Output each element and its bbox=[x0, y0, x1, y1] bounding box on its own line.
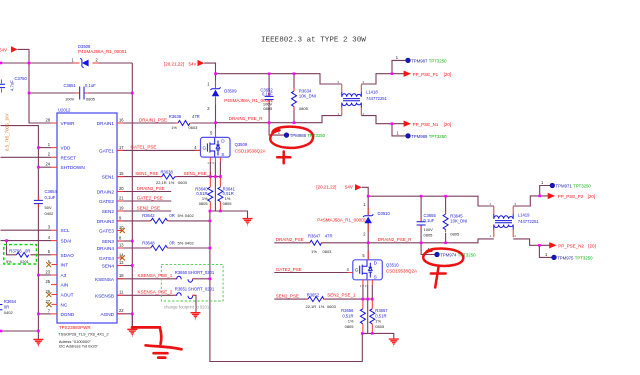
wire A3 to pin 23 bbox=[38, 274, 51, 276]
wire R3651 to ground bbox=[193, 295, 196, 312]
annotation red circle around TPM974 bbox=[423, 248, 463, 265]
svg-text:KSENSA_PSE_2: KSENSA_PSE_2 bbox=[138, 290, 173, 295]
wire C3655 vertical bbox=[420, 196, 422, 243]
resistor R3641 0.51R bbox=[218, 178, 236, 211]
svg-text:[20,21,22]: [20,21,22] bbox=[316, 185, 336, 190]
annotation red plus below TPM974 bbox=[431, 267, 446, 288]
transformer L1419 744772251 bbox=[490, 202, 540, 238]
svg-text:21: 21 bbox=[119, 195, 124, 200]
wire GND rail x=132.3 bbox=[131, 63, 133, 329]
IC right pin numbers bbox=[119, 117, 124, 313]
svg-text:54V: 54V bbox=[189, 61, 197, 66]
wire C3652 vertical bbox=[268, 74, 270, 123]
svg-text:P4SMAJ58A_R1_00001: P4SMAJ58A_R1_00001 bbox=[317, 218, 366, 223]
svg-text:GATE3: GATE3 bbox=[99, 229, 114, 234]
svg-text:0805: 0805 bbox=[424, 233, 434, 238]
svg-text:R3651: R3651 bbox=[175, 286, 188, 291]
svg-text:DRAIN4: DRAIN4 bbox=[97, 246, 115, 251]
wire R3642 to KSENSA rail bbox=[168, 220, 210, 222]
resistor R3652 22.1R bbox=[306, 292, 337, 309]
svg-text:TPT3250: TPT3250 bbox=[429, 58, 447, 63]
wire DRAIN2_PSE stub at pin 20 bbox=[117, 191, 171, 193]
svg-text:CSD19538Q2A: CSD19538Q2A bbox=[235, 148, 266, 153]
svg-text:VDD: VDD bbox=[61, 146, 72, 151]
svg-text:GATE2_PSE: GATE2_PSE bbox=[276, 267, 302, 272]
svg-text:5%: 5% bbox=[178, 213, 184, 218]
svg-text:D: D bbox=[221, 138, 225, 143]
svg-text:0805: 0805 bbox=[345, 324, 355, 329]
wire DRAIN4 pin13 to R3648 bbox=[117, 247, 151, 249]
resistor R3657 0.51R bbox=[370, 300, 389, 333]
svg-text:744772251: 744772251 bbox=[518, 219, 540, 224]
svg-text:12: 12 bbox=[119, 260, 124, 265]
svg-text:R3648: R3648 bbox=[142, 240, 155, 245]
svg-text:25: 25 bbox=[45, 279, 50, 284]
svg-text:R3642: R3642 bbox=[142, 213, 155, 218]
resistor R3656 0.51R bbox=[341, 300, 365, 333]
svg-text:C3750: C3750 bbox=[15, 76, 28, 81]
no-connect X pin 26 AOUT bbox=[46, 292, 51, 297]
svg-text:0402: 0402 bbox=[185, 240, 195, 245]
svg-text:TPS23880PWR: TPS23880PWR bbox=[59, 325, 92, 330]
capacitor C3652 bbox=[260, 87, 273, 111]
svg-text:S: S bbox=[374, 275, 377, 280]
svg-text:D3508: D3508 bbox=[78, 44, 91, 49]
svg-text:CSD19538Q2A: CSD19538Q2A bbox=[386, 269, 417, 274]
svg-text:G: G bbox=[203, 145, 207, 150]
capacitor C3651 bbox=[64, 83, 97, 102]
svg-text:S: S bbox=[221, 152, 224, 157]
test point TPM971 bbox=[541, 180, 591, 188]
svg-text:22,1R: 22,1R bbox=[156, 180, 167, 185]
IC left pin names bbox=[61, 121, 85, 317]
test point TPM987 bbox=[396, 55, 447, 63]
svg-text:5%: 5% bbox=[6, 259, 12, 264]
wire R3648 to KSENSA rail bbox=[168, 247, 210, 249]
wire DRAIN3 pin9 to R3642 bbox=[117, 220, 151, 222]
wire TPM989 drop bbox=[392, 124, 406, 136]
resistor R3645 10K_DNI bbox=[443, 211, 467, 237]
svg-text:SDAI: SDAI bbox=[61, 239, 72, 244]
wire SHTDOWN to pin 24 bbox=[38, 166, 51, 168]
wire transformer2 BR to PP_PSE_N2 bbox=[513, 239, 549, 245]
resistor R3640 0.51R bbox=[195, 178, 213, 211]
wire channel2 top branch to transformer2 TL bbox=[368, 196, 494, 206]
svg-text:AOUT: AOUT bbox=[61, 293, 74, 298]
svg-text:[20]: [20] bbox=[588, 243, 596, 248]
IC left pin stubs bbox=[51, 123, 57, 314]
resistor R3654 (cut at sheet edge) bbox=[0, 299, 17, 315]
svg-text:R3636: R3636 bbox=[169, 114, 182, 119]
svg-text:R3638: R3638 bbox=[161, 170, 174, 175]
svg-text:TSSOP28_TL9_7X8_4X1_2: TSSOP28_TL9_7X8_4X1_2 bbox=[58, 332, 109, 337]
svg-text:SHTDOWN: SHTDOWN bbox=[61, 165, 85, 170]
svg-text:GATE1: GATE1 bbox=[99, 148, 114, 153]
svg-text:KSENSA: KSENSA bbox=[95, 277, 115, 282]
svg-text:TPT3250: TPT3250 bbox=[307, 133, 325, 138]
svg-text:15: 15 bbox=[119, 171, 124, 176]
svg-text:0,1uF: 0,1uF bbox=[85, 83, 96, 88]
test point TPM989 bbox=[397, 131, 448, 139]
svg-text:5%: 5% bbox=[178, 240, 184, 245]
wire channel2 drain rail with D3510 bbox=[362, 187, 369, 259]
svg-text:0R: 0R bbox=[169, 213, 174, 218]
wire channel2 source bottom tie row to ground bbox=[362, 333, 394, 338]
svg-text:10K_DNI: 10K_DNI bbox=[450, 219, 467, 224]
svg-text:54V: 54V bbox=[0, 48, 7, 53]
capacitor C3655 bbox=[417, 213, 437, 237]
svg-text:SEN1_PSE: SEN1_PSE bbox=[135, 171, 158, 176]
svg-text:SHORT_0201: SHORT_0201 bbox=[188, 270, 215, 275]
power flag 54V (left sheet entry) bbox=[0, 46, 18, 52]
svg-text:0603: 0603 bbox=[323, 249, 333, 254]
svg-text:0,5_7k5_700S_1kV: 0,5_7k5_700S_1kV bbox=[5, 113, 10, 151]
wire GATE1_PSE pin17 to Q3509 gate bbox=[117, 149, 201, 151]
svg-text:47R: 47R bbox=[192, 114, 200, 119]
svg-text:TPT3250: TPT3250 bbox=[573, 184, 591, 189]
svg-text:20: 20 bbox=[119, 186, 124, 191]
svg-text:100V: 100V bbox=[424, 227, 434, 232]
svg-text:Q3509: Q3509 bbox=[235, 142, 248, 147]
wire channel1 top branch y=74 to transformer TL bbox=[216, 74, 342, 84]
svg-text:TPT3250: TPT3250 bbox=[429, 134, 447, 139]
svg-text:TPM987: TPM987 bbox=[411, 58, 428, 63]
port flag PP_PSE_N1 bbox=[404, 121, 452, 127]
svg-text:GATE1_PSE: GATE1_PSE bbox=[131, 145, 157, 150]
wire VDD rail from sheet edge down left side of IC bbox=[1, 126, 39, 339]
wire DRAIN2_PSE from label to R3647 bbox=[274, 242, 368, 244]
svg-text:0805: 0805 bbox=[450, 232, 460, 237]
wire R3650 to KSENSA rail bbox=[193, 278, 210, 280]
wire SEN3 pin8 to GND rail bbox=[117, 240, 132, 242]
power flag 54V channel 2 bbox=[316, 184, 361, 190]
ground (channel1 sense resistors) bbox=[243, 219, 253, 226]
svg-text:54V: 54V bbox=[345, 185, 353, 190]
wire GATE2_PSE stub at pin 21 bbox=[117, 200, 171, 202]
annotation red plus below TPM988 bbox=[277, 152, 290, 164]
green note box (change footprint) bbox=[161, 264, 223, 301]
wire R3634 vertical bbox=[293, 74, 295, 123]
svg-text:DRAIN2_PSE: DRAIN2_PSE bbox=[276, 237, 304, 242]
wire channel1 drain rail with D3509 bbox=[204, 63, 215, 137]
svg-text:DRAIN1_PSE: DRAIN1_PSE bbox=[139, 117, 167, 122]
svg-text:DGND: DGND bbox=[61, 312, 75, 317]
svg-text:0R: 0R bbox=[169, 240, 174, 245]
resistor R3634 10K_DNI bbox=[292, 88, 316, 111]
svg-text:[20]: [20] bbox=[444, 122, 452, 127]
annotation red circle around TPM988 bbox=[270, 127, 313, 148]
svg-text:0805: 0805 bbox=[199, 201, 209, 206]
resistor R3636 47R bbox=[169, 114, 200, 130]
wire DRAIN1_PSE_R row to transformer BL bbox=[216, 116, 342, 123]
wire DGND to pin 7 bbox=[38, 313, 51, 315]
svg-text:R3654: R3654 bbox=[4, 299, 17, 304]
test point TPM988 bbox=[278, 129, 326, 138]
svg-text:0R: 0R bbox=[4, 304, 9, 309]
wire mid source 2 down bbox=[367, 299, 369, 333]
resistor R3650 SHORT_0201 bbox=[174, 270, 215, 282]
svg-text:50V: 50V bbox=[45, 205, 52, 210]
wire SEN1_PSE_1 from R3638 to source node bbox=[175, 176, 220, 178]
wire 54V to C3651 left bbox=[29, 92, 79, 94]
svg-text:0805: 0805 bbox=[223, 201, 233, 206]
wire transformer1 TR to PP_PSE_P1 bbox=[361, 74, 404, 84]
svg-text:0R: 0R bbox=[25, 249, 30, 254]
no-connect X pin 27 NC bbox=[46, 302, 51, 307]
svg-text:16: 16 bbox=[119, 117, 124, 122]
svg-text:24: 24 bbox=[45, 162, 50, 167]
no-connect X pin 6 INT bbox=[46, 262, 51, 267]
svg-text:INT: INT bbox=[61, 263, 69, 268]
svg-text:KSENSA_PSE_1: KSENSA_PSE_1 bbox=[138, 273, 173, 278]
resistor R3648 0R bbox=[142, 240, 194, 250]
svg-text:DRAIN2_PSE: DRAIN2_PSE bbox=[137, 186, 165, 191]
svg-text:NC: NC bbox=[61, 302, 68, 307]
svg-text:U2012: U2012 bbox=[58, 108, 71, 113]
svg-text:DRAIN2_PSE_R: DRAIN2_PSE_R bbox=[378, 237, 413, 242]
svg-text:22: 22 bbox=[119, 308, 124, 313]
wire 54V rail y=63 from sheet edge to D3508 bbox=[1, 62, 74, 64]
diode D3508 (TVS P4SMAJ58A) bbox=[72, 44, 128, 68]
wire transformer2 TR to PP_PSE_P2 bbox=[513, 196, 548, 206]
svg-text:R3652: R3652 bbox=[307, 292, 320, 297]
wire KSENSA pin18 to R3650 bbox=[117, 278, 176, 280]
wire transformer1 BR to PP_PSE_N1 bbox=[361, 116, 404, 124]
resistor R3796 (0R) with green DNI box bbox=[4, 245, 37, 265]
svg-text:SCL: SCL bbox=[61, 228, 71, 233]
svg-text:SEN2_PSE: SEN2_PSE bbox=[137, 205, 160, 210]
svg-text:TPM974: TPM974 bbox=[440, 253, 457, 258]
svg-text:VPWR: VPWR bbox=[61, 121, 76, 126]
diode D3510 (TVS) bbox=[317, 202, 390, 237]
wire source node bottom tie row bbox=[210, 211, 248, 218]
svg-text:SEN1: SEN1 bbox=[102, 175, 115, 180]
test point TPM975 bbox=[545, 252, 593, 260]
svg-text:0805: 0805 bbox=[299, 106, 309, 111]
wire mid source down bbox=[214, 177, 216, 211]
svg-text:change footprint to 0201: change footprint to 0201 bbox=[164, 304, 210, 309]
svg-text:IEEE802.3 at TYPE 2 30W: IEEE802.3 at TYPE 2 30W bbox=[261, 37, 366, 45]
wire R3645 vertical bbox=[445, 196, 447, 243]
wire SEN2_PSE to R3652 bbox=[274, 298, 308, 300]
svg-text:A3: A3 bbox=[61, 273, 67, 278]
svg-text:1%: 1% bbox=[169, 180, 175, 185]
wire GND from sheet edge y=331 bbox=[1, 330, 39, 332]
svg-text:R3796: R3796 bbox=[9, 249, 22, 254]
svg-text:P4SMAJ58A_R1_00001: P4SMAJ58A_R1_00001 bbox=[78, 49, 127, 54]
wire DRAIN1_PSE pin16 to R3636 bbox=[117, 122, 178, 124]
wire TPM987 riser bbox=[392, 60, 406, 73]
capacitor C3750 (cut at sheet edge) bbox=[0, 76, 28, 93]
svg-text:17: 17 bbox=[119, 145, 124, 150]
svg-text:28: 28 bbox=[45, 117, 50, 122]
wire SDAI branch through R3796 to SDAO pin 5 bbox=[7, 241, 52, 255]
svg-text:C3651: C3651 bbox=[64, 83, 77, 88]
resistor R3651 SHORT_0201 bbox=[174, 286, 215, 298]
svg-text:SEN1_PSE_1: SEN1_PSE_1 bbox=[184, 171, 213, 176]
svg-text:R3650: R3650 bbox=[175, 270, 188, 275]
svg-text:0,1uF: 0,1uF bbox=[424, 218, 435, 223]
svg-text:47R: 47R bbox=[325, 233, 333, 238]
svg-text:DRAIN1_PSE_R: DRAIN1_PSE_R bbox=[229, 116, 264, 121]
svg-text:0805: 0805 bbox=[375, 324, 385, 329]
resistor R3638 22.1R bbox=[156, 170, 188, 185]
wire TPM974 drop bbox=[421, 243, 434, 255]
svg-text:0,1uF: 0,1uF bbox=[262, 92, 273, 97]
svg-text:RESET: RESET bbox=[61, 155, 77, 160]
svg-text:23: 23 bbox=[45, 269, 50, 274]
wire AGND pin22 to GND rail bbox=[117, 313, 132, 315]
svg-text:0603: 0603 bbox=[327, 304, 337, 309]
svg-text:13: 13 bbox=[119, 242, 124, 247]
svg-text:1 2 3: 1 2 3 bbox=[360, 284, 367, 288]
svg-text:744772251: 744772251 bbox=[366, 96, 388, 101]
svg-text:KSENSB: KSENSB bbox=[95, 293, 114, 298]
wire TPM988 drop bbox=[269, 123, 284, 135]
wire SEN4 pin12 to GND rail bbox=[117, 265, 132, 267]
port flag PP_PSE_P2 bbox=[548, 193, 595, 199]
test point TPM974 bbox=[428, 247, 477, 258]
resistor R3647 47R bbox=[308, 233, 333, 253]
svg-text:18: 18 bbox=[119, 273, 124, 278]
wire VDD to pin 1 bbox=[38, 147, 51, 149]
svg-text:DRAIN2: DRAIN2 bbox=[97, 190, 115, 195]
svg-text:0201: 0201 bbox=[20, 259, 30, 264]
no-connect X pin 14 GATE4 bbox=[120, 255, 125, 260]
ground (left, DGND rail) bbox=[33, 339, 43, 346]
wire DRAIN2_PSE_R row to transformer2 BL bbox=[368, 239, 494, 243]
wire KSENSB pin11 to R3651 bbox=[117, 294, 176, 296]
wire AGND rail stub to ground symbol bbox=[131, 314, 133, 329]
svg-text:4,7uF: 4,7uF bbox=[10, 80, 15, 91]
svg-text:AGND: AGND bbox=[100, 312, 114, 317]
svg-text:G: G bbox=[355, 268, 359, 273]
svg-text:Q3510: Q3510 bbox=[386, 262, 399, 267]
svg-text:SEN2: SEN2 bbox=[102, 209, 115, 214]
IC left pin numbers bbox=[45, 117, 50, 313]
svg-text:TPM975: TPM975 bbox=[557, 255, 574, 260]
svg-text:0603: 0603 bbox=[178, 180, 188, 185]
wire SEN2_PSE stub at pin 19 bbox=[117, 210, 171, 212]
wire RESET from sheet edge to pin 2 bbox=[1, 156, 52, 158]
svg-text:0402: 0402 bbox=[45, 211, 55, 216]
svg-text:C3654: C3654 bbox=[45, 189, 58, 194]
wire SCL from sheet edge to pin 3 bbox=[1, 229, 52, 231]
svg-text:0,1uF: 0,1uF bbox=[45, 195, 56, 200]
svg-text:1 2 3: 1 2 3 bbox=[207, 161, 214, 165]
svg-text:1%: 1% bbox=[311, 249, 317, 254]
wire SEN2_PSE_1 from R3652 to source node bbox=[323, 298, 372, 300]
IC right pin names bbox=[95, 121, 115, 317]
diode D3509 (TVS) bbox=[207, 81, 273, 112]
wire DRAIN1_PSE_R from R3636 to drain rail bbox=[190, 122, 216, 124]
transformer L1418 744772251 bbox=[338, 80, 388, 116]
ground (AGND rail bottom) bbox=[127, 329, 137, 336]
svg-text:DRAIN1: DRAIN1 bbox=[97, 121, 115, 126]
svg-text:D3509: D3509 bbox=[224, 89, 237, 94]
svg-text:100V: 100V bbox=[65, 97, 75, 102]
wire C3651 right to GND rail bbox=[84, 92, 132, 94]
ground (channel2 sense resistors) bbox=[389, 339, 399, 346]
wire 54V bus from flag to VPWR pin 28 bbox=[18, 49, 51, 123]
capacitor C3654 bbox=[34, 189, 58, 216]
mosfet Q3509 CSD19538Q2A bbox=[194, 129, 265, 165]
power flag 54V channel 1 bbox=[164, 60, 204, 66]
op-amp U2012 TPS23880 PSE controller IC body bbox=[57, 108, 117, 349]
svg-text:0805: 0805 bbox=[86, 97, 96, 102]
svg-text:19: 19 bbox=[119, 205, 124, 210]
wire Q3510 source stubs bbox=[363, 285, 372, 299]
wire D3508 cathode to GND rail corner bbox=[98, 62, 132, 64]
svg-text:PP_PSE_N2: PP_PSE_N2 bbox=[558, 243, 584, 248]
wire KSENSA rail down to bottom return rail and to channel2 bbox=[210, 211, 362, 362]
port flag PP_PSE_N2 bbox=[549, 242, 596, 248]
svg-text:0603: 0603 bbox=[189, 125, 199, 130]
svg-text:1%: 1% bbox=[319, 304, 325, 309]
svg-text:10K_DNI: 10K_DNI bbox=[299, 94, 316, 99]
svg-text:[20]: [20] bbox=[588, 194, 596, 199]
svg-text:TPM971: TPM971 bbox=[556, 184, 573, 189]
svg-text:SEN2_PSE: SEN2_PSE bbox=[276, 294, 299, 299]
port flag PP_PSE_P1 bbox=[404, 71, 452, 77]
svg-text:SHORT_0201: SHORT_0201 bbox=[188, 286, 215, 291]
svg-text:GATE4: GATE4 bbox=[99, 256, 114, 261]
svg-text:D3510: D3510 bbox=[378, 211, 391, 216]
svg-text:1%: 1% bbox=[171, 125, 177, 130]
svg-text:GATE2: GATE2 bbox=[99, 199, 114, 204]
svg-text:DRAIN3: DRAIN3 bbox=[97, 219, 115, 224]
svg-text:22,1R: 22,1R bbox=[306, 304, 317, 309]
svg-text:TPT3250: TPT3250 bbox=[575, 255, 593, 260]
wire SEN1_PSE pin15 to R3638 bbox=[117, 176, 162, 178]
svg-text:[20,21,22]: [20,21,22] bbox=[164, 61, 184, 66]
svg-text:SEN4: SEN4 bbox=[102, 264, 115, 269]
svg-text:PP_PSE_N1: PP_PSE_N1 bbox=[413, 122, 439, 127]
resistor R3642 0R bbox=[142, 213, 194, 223]
svg-text:11: 11 bbox=[119, 290, 124, 295]
annotation hand-drawn ground sketch bbox=[132, 327, 182, 357]
svg-text:0805: 0805 bbox=[263, 106, 273, 111]
IC right pin stubs bbox=[117, 123, 123, 314]
wire TPM971 riser bbox=[540, 186, 551, 196]
svg-text:0402: 0402 bbox=[4, 310, 14, 315]
svg-text:TPM988: TPM988 bbox=[290, 133, 307, 138]
svg-text:I2C Address 'hd 0x20': I2C Address 'hd 0x20' bbox=[59, 344, 98, 349]
svg-text:0402: 0402 bbox=[185, 213, 195, 218]
no-connect X pin 10 GATE3 bbox=[120, 228, 125, 233]
wire Q3509 source stubs to SEN1 node bbox=[210, 162, 220, 177]
svg-text:TPM989: TPM989 bbox=[411, 134, 428, 139]
svg-text:PP_PSE_P2: PP_PSE_P2 bbox=[558, 194, 584, 199]
svg-text:R3647: R3647 bbox=[308, 233, 321, 238]
wire SDAI from sheet edge to pin 4 bbox=[1, 240, 52, 242]
svg-text:GATE2_PSE: GATE2_PSE bbox=[137, 195, 163, 200]
wire GATE2_PSE to Q3510 gate bbox=[274, 272, 353, 274]
svg-text:SEN3: SEN3 bbox=[102, 239, 115, 244]
wire TPM975 drop bbox=[539, 245, 552, 257]
svg-text:SDAO: SDAO bbox=[61, 253, 75, 258]
svg-text:AIN: AIN bbox=[61, 283, 69, 288]
svg-text:SEN2_PSE_1: SEN2_PSE_1 bbox=[327, 292, 356, 297]
svg-text:L1418: L1418 bbox=[366, 89, 378, 94]
svg-text:PP_PSE_P1: PP_PSE_P1 bbox=[413, 72, 439, 77]
svg-text:L1419: L1419 bbox=[518, 213, 530, 218]
mosfet Q3510 CSD19538Q2A bbox=[347, 251, 418, 288]
svg-text:[20]: [20] bbox=[444, 72, 452, 77]
ground (KSENSB R3651) bbox=[191, 313, 201, 320]
